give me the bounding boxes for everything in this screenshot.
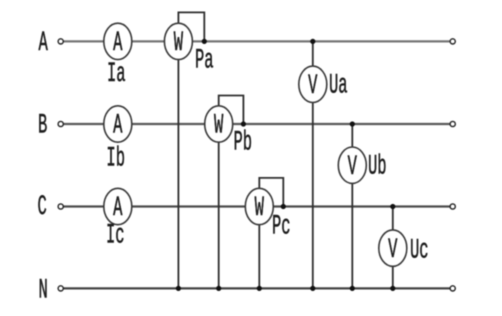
svg-text:Ic: Ic: [106, 219, 125, 251]
svg-text:Pc: Pc: [272, 210, 291, 242]
svg-text:Uc: Uc: [410, 234, 429, 266]
svg-text:W: W: [255, 192, 265, 224]
svg-text:Ub: Ub: [368, 150, 387, 182]
svg-text:W: W: [214, 109, 224, 141]
svg-text:A: A: [39, 27, 49, 59]
svg-text:B: B: [38, 109, 47, 141]
svg-text:V: V: [348, 151, 358, 183]
svg-text:V: V: [388, 233, 398, 265]
svg-text:Ua: Ua: [329, 69, 348, 101]
svg-text:A: A: [113, 109, 123, 141]
svg-text:C: C: [38, 190, 47, 222]
svg-text:V: V: [308, 70, 318, 102]
svg-text:W: W: [174, 27, 184, 59]
svg-text:Ia: Ia: [107, 58, 126, 90]
svg-text:Pa: Pa: [195, 44, 214, 76]
svg-text:N: N: [39, 274, 48, 306]
svg-text:Pb: Pb: [234, 126, 253, 158]
svg-text:Ib: Ib: [106, 142, 125, 174]
svg-text:A: A: [113, 27, 123, 59]
